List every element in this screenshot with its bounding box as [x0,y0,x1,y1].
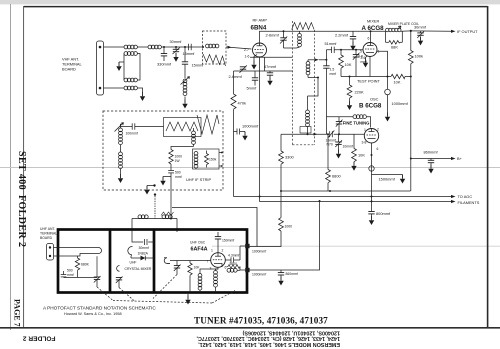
arrowhead B plus [451,157,456,160]
VHF ant label [62,57,83,72]
wire fine tuning loop top [326,117,370,135]
svg-text:N70: N70 [327,143,333,147]
svg-text:MIXER: MIXER [367,19,380,24]
capacitor 500mmf UHF [61,271,78,278]
inverted footer Emerson models [196,330,340,347]
arrowhead AGC [451,195,456,198]
ground 800mmf [369,216,374,225]
tube UHF OSC 6AF4A [211,253,226,268]
node strip input [202,46,204,48]
dashed gang bar [113,301,212,304]
wire B plus [411,158,451,160]
svg-text:UHF IF STRIP: UHF IF STRIP [186,177,211,182]
capacitor 5mmf [252,71,258,86]
ground feedthrough [385,113,390,122]
wire plate network right [240,246,246,270]
ground balun T1 [116,62,121,71]
wire osc AGC link [281,190,411,192]
capacitor 2.2mmf [350,31,356,41]
svg-text:5600: 5600 [230,262,238,266]
dashed gang line 1 [97,287,113,301]
node mixer plate [370,30,372,32]
svg-text:6: 6 [225,266,227,270]
wire to 800mmf [371,197,373,212]
dashed gang line 2 [119,288,135,302]
node fine tuning grid [338,133,340,135]
node trimmer mixer [355,49,357,51]
svg-text:3300: 3300 [285,155,294,160]
capacitor 30mmf IF trimmer [417,31,424,38]
node 15mmf branch [184,46,186,48]
svg-text:3-8: 3-8 [362,141,367,145]
svg-text:SET 400: SET 400 [16,151,27,190]
capacitor fine tuning [336,117,343,135]
dashed osc strip bottom [293,144,315,146]
svg-text:UHF ANT.: UHF ANT. [40,227,55,231]
svg-text:150mmf: 150mmf [222,239,234,243]
page left margin rule [10,4,12,330]
trimmer box osc [300,127,311,134]
ground 30mmf IF [418,36,423,45]
UHF osc grid loop [164,258,170,264]
capacitor 2-6mmf mixer trimmer [353,50,360,77]
svg-text:1000: 1000 [285,225,293,229]
label 500mmf IF [175,171,182,179]
svg-text:15mmf: 15mmf [183,51,196,56]
svg-text:1500mmf: 1500mmf [379,177,396,182]
resistor 1000 [279,191,284,231]
node 30mmf tap [175,46,177,48]
balun transformer T1 primary [123,45,137,49]
svg-text:2: 2 [377,128,379,132]
inductor RF plate coil [284,31,302,48]
svg-text:6BN4: 6BN4 [251,25,267,32]
wire mixer pin1 to feedthrough [377,51,388,76]
resistor 470k AGC [231,71,236,197]
wire IF trans taps [219,153,222,167]
capacitor UHF mixer tuning [116,277,123,288]
node osc coil grid [307,133,309,135]
capacitor 860mmf B plus [428,159,434,165]
svg-text:1W: 1W [175,159,181,163]
inductor osc injection coil [306,60,318,78]
UHF mixer loop [128,246,133,258]
resistor 100k B+ [408,31,413,191]
wire loop to varcap [96,256,98,277]
svg-text:CRYSTAL MIXER: CRYSTAL MIXER [125,267,152,271]
wire filament bus [260,57,451,201]
arrowhead filaments [451,200,456,203]
node 10K mixer [340,49,342,51]
svg-text:BOARD: BOARD [62,67,76,72]
balun T2 primary [124,78,137,82]
node neutralizing cap [283,30,285,32]
svg-text:10K: 10K [194,266,201,270]
svg-text:2-6mmf: 2-6mmf [266,32,280,37]
inductor fine tuning [353,115,366,119]
schematic frame bottom rule [0,327,500,329]
ground IF coil2 [118,174,123,183]
wire mixer plate [370,31,372,42]
svg-text:3-8: 3-8 [358,55,363,59]
variable arrow IF coil 1 [115,123,124,132]
tube RF AMP 6BN4 [253,43,267,57]
svg-text:6: 6 [368,37,370,41]
svg-text:150k: 150k [209,158,217,162]
balun T1 secondary [119,52,137,62]
svg-text:Howard W. Sams & Co., Inc. 195: Howard W. Sams & Co., Inc. 1958 [64,312,122,316]
inductor 5600 coil [227,268,240,272]
feedthrough terminal 1 [245,244,249,248]
node osc cathode AGC crossing [371,196,373,198]
fold crease upper [0,167,500,169]
ground UHF box [185,293,190,305]
wire terminal1 to 1000 resistor [250,231,281,247]
svg-text:680K: 680K [81,263,90,267]
svg-text:TUNER #471035, 471036, 471037: TUNER #471035, 471036, 471037 [194,316,328,326]
ground shield [144,186,154,195]
svg-text:1-6: 1-6 [245,55,250,59]
wire strip to RF tube grid [226,47,252,49]
capacitor 2-6mmf cathode trimmer [240,65,247,72]
capacitor 150mmf [215,232,221,253]
svg-text:FOLDER 2: FOLDER 2 [16,195,27,247]
balun T2 secondary [124,86,137,90]
node 6800 AGC [329,190,331,192]
coil strip sawtooth RF plate [292,23,314,30]
dashed gang line 3 [153,275,177,299]
node link [170,218,172,220]
capacitor 10mmf NPO shunt [335,134,342,149]
resistor 150k [205,151,209,168]
svg-text:B+: B+ [457,156,463,161]
svg-text:BOARD: BOARD [40,236,53,240]
tube MIXER A 6CG8 [363,43,377,57]
dashed gang rise [212,291,235,304]
wire injection to mixer [319,59,327,61]
wire terminal2 to filament [250,201,320,270]
wire coil to junction [162,46,203,48]
TP wiper arrow [398,26,401,29]
node osc cathode [371,154,373,156]
svg-text:800mmf: 800mmf [376,211,391,216]
capacitor 1000mmf feedthrough [385,77,391,113]
capacitor UHF ant tuning [94,276,101,287]
capacitor 1.5mmf osc injection [323,50,329,117]
svg-text:1: 1 [211,249,213,253]
svg-text:1000mmf: 1000mmf [392,101,409,106]
sawtooth IF slug [166,122,198,131]
inductor strip coil [206,44,219,48]
svg-text:2-7: 2-7 [244,48,249,52]
svg-text:6: 6 [377,147,379,151]
wire osc grid [281,133,364,135]
diode 1N82A [131,256,154,261]
ground RF grid coil [182,97,187,109]
resistor 68K [386,31,403,44]
capacitor 30mmf trimmer [173,47,180,54]
inductor osc coil [306,96,310,134]
VHF antenna terminal board [97,41,104,95]
capacitor 800mmf [368,212,374,217]
capacitor 330mmf [161,47,167,61]
label 10mmf N70 [326,139,336,147]
inductor link coil 1 [138,215,148,219]
capacitor 15mmf shunt [182,47,188,78]
svg-text:10K: 10K [394,80,401,85]
capacitor 100mmf [132,123,135,129]
node 100k IF [410,30,412,32]
UHF box divider 1 [109,230,112,293]
wire T1 secondary to T2 [138,54,141,81]
svg-text:51mmf: 51mmf [325,41,338,46]
resistor 10K mixer grid [339,50,344,77]
wire IF out down [170,177,172,219]
thin shield outline UHF [172,208,257,247]
svg-text:100mmf: 100mmf [126,132,138,136]
resistor 10K test point [391,74,405,78]
ground mixer cathode [363,56,368,68]
dashed strip rail right [314,30,316,145]
svg-text:mmf: mmf [330,72,337,76]
svg-text:IF OUTPUT: IF OUTPUT [457,29,478,34]
wire IF output [411,30,451,32]
dashed shaft line [154,196,156,219]
svg-text:860mmf: 860mmf [424,150,439,155]
node feedthrough TP [387,76,389,78]
svg-text:30mmf: 30mmf [170,39,183,44]
svg-text:TERMINAL: TERMINAL [40,232,57,236]
wire AGC bus [234,196,452,198]
resistor 680K [75,256,79,278]
capacitor 1000mmf AGC bypass [234,129,246,135]
wire test point [341,76,411,78]
svg-text:2: 2 [222,249,224,253]
ground 860mmf [428,165,433,174]
svg-text:UHF OSC: UHF OSC [190,241,206,245]
inductor UHF osc coil 1 [198,269,218,293]
inductor link coil 2 [162,215,172,219]
node tap1 [221,152,223,154]
svg-text:860mmf: 860mmf [286,272,298,276]
svg-text:5mmf: 5mmf [247,86,258,91]
svg-text:mmf: mmf [67,273,74,277]
node filament AGC crossing [259,196,261,198]
UHF box divider 2 [153,230,156,293]
capacitor 30mmf UHF [144,239,147,245]
wire T1 to peaking coil [138,46,149,48]
sawtooth IF right [197,115,219,134]
svg-text:B 6CG8: B 6CG8 [359,103,382,110]
ground 220K [347,101,352,110]
svg-text:4.3mmf: 4.3mmf [228,254,239,258]
capacitor 4.3mmf [225,257,240,263]
ground 10K osc [351,162,356,171]
sawtooth link [161,212,174,216]
svg-text:120400S, 120401U, 120404S, 120: 120400S, 120401U, 120404S, 120406S) [242,330,340,336]
fold crease lower [212,245,500,247]
schematic frame right [487,6,489,328]
resistor 220K [347,77,352,102]
arrowhead wiper [228,46,232,49]
svg-text:FINE TUNING: FINE TUNING [343,121,370,126]
node test point B plus [410,76,412,78]
node 220K [349,76,351,78]
inductor IF strip coil 2 [119,152,123,174]
svg-text:mmf: mmf [175,175,182,179]
resistor 5600 [227,265,241,269]
capacitor 15mmf series [189,44,192,50]
capacitor 51mmf [332,47,335,53]
wire screen return under tube [250,56,293,58]
label 1000 1W [175,155,183,163]
svg-text:1N82A: 1N82A [138,252,149,256]
wire T1 secondary to T2 left [123,54,125,81]
ground RF cathode [251,55,257,70]
wire lower terminal to T2 [104,87,125,89]
wire 680K to varcap [78,277,98,279]
capacitor 500mmf IF [168,171,174,177]
svg-text:47mmf: 47mmf [264,64,277,69]
svg-text:TO AGC: TO AGC [458,194,473,199]
resistor 6800 [326,134,331,191]
dashed strip rail left [292,21,294,145]
inductor IF trans coil [194,152,198,169]
inductor mixer plate coil [385,28,412,31]
wire mixer grid [326,49,363,51]
svg-text:UHF: UHF [130,261,137,265]
IF strip tuning slug box [164,118,202,137]
node 6800 grid [327,133,329,135]
ground 500mmf [160,177,171,186]
resistor 10K UHF [188,261,192,293]
svg-text:6800: 6800 [332,174,341,179]
wire cathode circuit [234,57,293,71]
svg-text:1000mmf: 1000mmf [242,124,259,129]
label 1.5 mmf [330,68,337,76]
inductor UHF osc coil 2 [214,267,218,292]
wire coil to 1000 1W resistor [171,147,194,150]
variable arrow RF coil [181,77,190,85]
resistor 1000 1W [169,150,173,171]
wire T2 out [138,88,143,92]
inductor IF strip coil 1 [119,124,123,152]
svg-text:2.2mmf: 2.2mmf [335,32,349,37]
wire UHF link bus [132,219,177,240]
resistor 3300 [279,134,284,191]
ground 2.2mmf [350,42,355,51]
label 2-6 mmf [361,56,368,64]
svg-text:6AF4A: 6AF4A [191,247,208,253]
arrowhead strip wiper [315,58,319,61]
peaking coil [148,45,161,49]
IF output transformer box [193,149,220,169]
svg-text:7: 7 [207,260,209,264]
dashed box UHF IF strip [103,111,223,190]
node 330mmf tap [163,46,165,48]
wire grid loop to tube [164,258,211,264]
UHF tuner shield box [58,230,247,293]
dashed box VHF RF coil strip [203,31,227,64]
svg-text:1000mmf: 1000mmf [252,250,266,254]
small loop crystal [117,266,120,272]
node injection tap [325,59,327,61]
wire top terminal to balun [104,46,124,48]
wire RF plate up [260,31,385,43]
arrowhead osc strip wiper [314,133,318,136]
UHF antenna loop [95,248,102,254]
feedthrough terminal 2 [245,268,249,272]
wire UHF mixer input [132,240,154,243]
inductor IF top coil [192,128,196,147]
svg-text:2-6mmf: 2-6mmf [229,74,243,79]
svg-text:1: 1 [364,128,366,132]
resistor 10K osc [352,134,357,162]
capacitor feedthrough osc [369,166,374,171]
svg-text:470k: 470k [238,101,246,106]
capacitor 2-6mmf neutralizing [280,31,287,48]
capacitor series trimmer 10mmf N70 [328,131,335,139]
svg-text:A 6CG8: A 6CG8 [362,25,385,32]
svg-text:10K: 10K [358,153,365,158]
svg-text:3: 3 [210,267,212,271]
arrowhead IF output [451,30,456,33]
capacitor 860mmf UHF [278,270,284,277]
coil strip contact zigzag [203,54,226,66]
tube OSC B 6CG8 [364,129,378,143]
inductor RF grid shunt coil [183,79,187,96]
label 500mmf UHF [67,269,74,277]
ground 1500mmf [400,175,405,184]
wire coil1 top to 100mmf [121,124,164,127]
label UHF ANT [40,227,57,240]
svg-text:10mmf: 10mmf [343,145,353,149]
wire UHF ant top [54,247,96,249]
wire 1500mmf branch [372,174,403,176]
svg-text:100k: 100k [415,54,423,59]
capacitor 47mmf [267,71,273,77]
node terminal2 filament [319,200,321,202]
ground AGC bypass [242,132,247,141]
node filament crossing [371,200,373,202]
wire strip interlink [308,78,319,97]
ground 47mmf [267,77,272,86]
svg-text:PAGE 7: PAGE 7 [13,299,22,327]
schematic frame left [23,6,25,328]
svg-text:RF AMP: RF AMP [253,18,268,23]
svg-text:30mmf: 30mmf [414,24,427,29]
svg-text:1000mmf: 1000mmf [252,273,266,277]
node shield dot [153,184,155,186]
ground 10mmf NPO [336,150,341,159]
ground 860mmf UHF [278,277,283,286]
svg-text:OSC: OSC [370,97,379,102]
svg-text:FOLDER 2: FOLDER 2 [23,335,56,342]
UHF antenna terminal board [47,244,54,261]
svg-text:5: 5 [360,50,362,54]
node tap2 [221,165,223,167]
svg-text:220K: 220K [355,90,364,95]
page top grey edge [0,0,500,4]
svg-text:30mmf: 30mmf [139,246,149,250]
capacitor UHF osc tuning [174,261,181,275]
svg-text:10K: 10K [345,62,352,67]
ground balun T2 [140,92,145,101]
wire mixer cathode down [369,57,371,77]
wire UHF ant bottom [54,254,96,257]
node 3300 AGC [280,190,282,192]
schematic frame top [24,6,488,8]
